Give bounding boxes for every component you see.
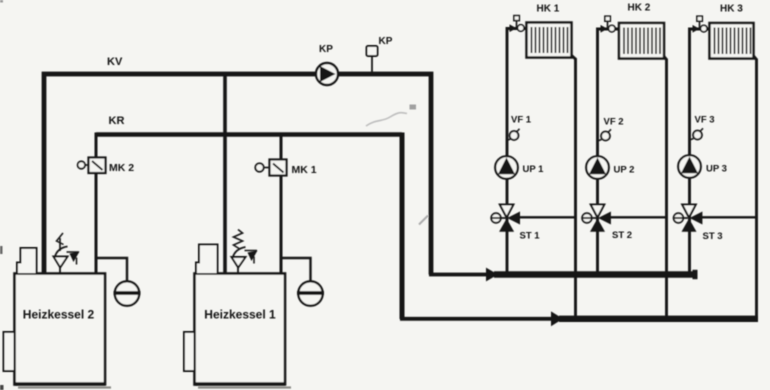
- wire KV branch down to boiler 1: [223, 76, 227, 273]
- svg-text:Heizkessel 1: Heizkessel 1: [204, 308, 276, 322]
- wire KR right riser: [400, 133, 405, 320]
- wire heating circuit 2 supply riser: [598, 29, 620, 274]
- wire KV supply main (left riser, top run, right drop): [44, 74, 431, 275]
- valve MK2 with thermometer: [78, 158, 106, 174]
- pump KP: [316, 63, 338, 85]
- wire supply header thick segment: [494, 271, 694, 277]
- wire return header thick segment: [559, 316, 758, 322]
- three-way valve ST1: [491, 205, 520, 232]
- boiler 1 bottom shadow: [198, 386, 291, 388]
- three-way valve ST3: [673, 205, 702, 232]
- safety valve on boiler 1: [232, 230, 258, 274]
- boiler 2 bottom edge: [15, 382, 105, 385]
- supply header end cap: [693, 270, 698, 279]
- wire supply header thin segment: [429, 273, 487, 277]
- radiator HK2: [619, 23, 664, 59]
- wire expansion vessel 2 connector: [97, 258, 127, 281]
- wire heating circuit 3 return drop: [754, 56, 757, 319]
- three-way valve ST2: [582, 205, 611, 232]
- svg-text:VF 1: VF 1: [511, 115, 532, 126]
- sensor VF1: [507, 129, 520, 141]
- wire heating circuit 1 return drop: [572, 56, 576, 320]
- sensor VF2: [598, 129, 612, 141]
- svg-text:Heizkessel 2: Heizkessel 2: [23, 308, 95, 322]
- svg-text:VF 3: VF 3: [695, 115, 715, 126]
- wire ST1 bypass arm: [519, 216, 576, 218]
- safety valve on boiler 2: [54, 233, 80, 273]
- radiator valve circuit 1: [510, 16, 525, 32]
- wire KR branch below MK1 to boiler 1: [280, 176, 283, 274]
- svg-text:VF 2: VF 2: [604, 117, 624, 128]
- svg-text:HK 1: HK 1: [537, 4, 560, 15]
- wire heating circuit 3 supply riser: [690, 29, 711, 274]
- scan artifact squiggle: [366, 113, 407, 126]
- scan edge mark top left: [0, 0, 3, 3]
- wire KR drop below MK2 to boiler 2: [95, 172, 98, 273]
- svg-text:ST 2: ST 2: [612, 230, 632, 241]
- expansion vessel boiler 2: [114, 281, 141, 305]
- wire return header thin segment: [400, 317, 553, 321]
- scan edge mark bottom left: [0, 385, 4, 390]
- svg-text:ST 1: ST 1: [520, 231, 541, 242]
- svg-text:KP: KP: [319, 44, 333, 55]
- boiler 1 flue box: [196, 245, 218, 274]
- wire KR return top run: [96, 132, 402, 136]
- radiator HK3: [710, 23, 754, 59]
- flow arrow on supply header: [486, 268, 498, 282]
- expansion vessel boiler 1: [297, 281, 324, 305]
- valve MK1 with thermometer: [255, 160, 286, 176]
- scan artifact tick: [419, 216, 428, 225]
- pump UP1: [495, 156, 518, 179]
- wire heating circuit 2 return drop: [664, 56, 667, 319]
- scan artifact blob: [410, 105, 417, 110]
- svg-text:HK 3: HK 3: [720, 4, 743, 15]
- svg-text:KR: KR: [109, 115, 125, 127]
- svg-text:KP: KP: [379, 36, 393, 47]
- flow arrow on return header: [551, 311, 563, 326]
- wire ST2 bypass arm: [610, 216, 667, 218]
- sensor VF3: [690, 128, 704, 140]
- boiler Heizkessel 2 body: [15, 274, 106, 385]
- wire KR left drop to valve MK2: [95, 133, 98, 159]
- radiator valve circuit 3: [693, 16, 708, 32]
- wire expansion vessel 1 connector: [281, 258, 311, 281]
- pump UP2: [586, 156, 609, 179]
- boiler 2 bottom shadow: [18, 386, 111, 388]
- boiler 1 side tab: [184, 332, 195, 371]
- svg-text:UP 2: UP 2: [614, 165, 635, 176]
- boiler 2 side tab: [4, 332, 15, 371]
- svg-text:MK 1: MK 1: [292, 164, 317, 176]
- svg-text:UP 3: UP 3: [706, 164, 727, 175]
- sensor KP pocket: [367, 46, 378, 72]
- svg-text:ST 3: ST 3: [703, 231, 723, 242]
- boiler 2 flue box: [17, 248, 37, 273]
- boiler 1 bottom edge: [195, 382, 285, 385]
- radiator HK1: [527, 23, 572, 58]
- wire KR branch down to valve MK1: [280, 136, 283, 160]
- pump UP3: [678, 155, 701, 178]
- wire ST3 bypass arm: [701, 216, 757, 218]
- svg-text:KV: KV: [107, 56, 123, 68]
- scan edge mark left middle: [0, 246, 3, 254]
- wire heating circuit 1 supply riser: [507, 29, 527, 275]
- svg-text:UP 1: UP 1: [523, 164, 545, 175]
- radiator valve circuit 2: [601, 16, 616, 32]
- boiler Heizkessel 1 body: [195, 274, 286, 385]
- svg-text:HK 2: HK 2: [628, 3, 651, 14]
- svg-text:MK 2: MK 2: [109, 162, 134, 174]
